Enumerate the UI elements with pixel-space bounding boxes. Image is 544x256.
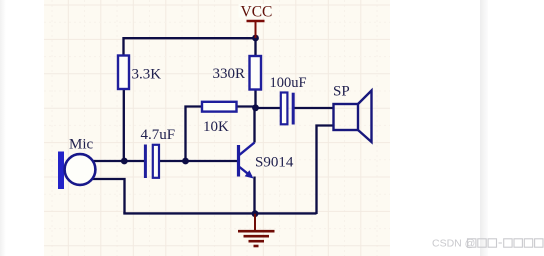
C2 positive plate xyxy=(281,93,288,125)
svg-text:10K: 10K xyxy=(203,119,229,135)
wire: mic top lead to C1 xyxy=(92,160,145,162)
Q1 emitter stroke xyxy=(240,167,252,177)
node: VCC junction xyxy=(252,35,259,42)
resistor R1 body xyxy=(118,56,129,90)
wire: R2 top lead xyxy=(254,37,256,56)
wire: R2 bottom lead to node B xyxy=(254,89,256,108)
svg-text:3.3K: 3.3K xyxy=(132,67,162,83)
Q1 collector stroke xyxy=(240,143,255,155)
wire: speaker return xyxy=(317,126,334,215)
MIC diaphragm bar xyxy=(58,152,64,190)
wire: R1 top lead xyxy=(122,37,124,56)
wire: R3 left lead down to node C xyxy=(186,107,202,162)
watermark CSDN xyxy=(432,238,543,250)
resistor R2 body xyxy=(250,56,262,90)
capacitor C2 xyxy=(281,93,293,125)
wire: Q1 collector vertical xyxy=(253,108,255,143)
schematic sheet xyxy=(44,0,390,256)
svg-text:330R: 330R xyxy=(213,66,246,82)
node B: collector junction xyxy=(252,104,259,111)
C2 negative plate xyxy=(292,93,295,125)
svg-text:4.7uF: 4.7uF xyxy=(141,127,176,143)
ground xyxy=(238,214,275,246)
VCC stem xyxy=(255,21,257,38)
wire: R3 right lead xyxy=(237,105,256,107)
svg-text:S9014: S9014 xyxy=(255,155,294,171)
C1 positive plate xyxy=(153,145,159,178)
ground bar 3 xyxy=(249,240,265,243)
transistor Q1 xyxy=(239,143,255,179)
wire: Q1 emitter vertical xyxy=(253,177,255,214)
svg-text:SP: SP xyxy=(333,84,350,100)
svg-text:100uF: 100uF xyxy=(270,75,307,91)
node A: bias/mic junction xyxy=(121,158,128,165)
wire: bottom rail xyxy=(123,212,316,214)
wire: mic bottom lead xyxy=(92,179,125,213)
C1 negative plate xyxy=(144,145,147,179)
node C: base junction xyxy=(182,158,189,165)
svg-text:VCC: VCC xyxy=(241,4,273,21)
speaker SP xyxy=(334,91,372,143)
wire: top rail from R1 to VCC node xyxy=(124,37,256,39)
label VCC xyxy=(239,4,272,18)
wire: C2 to speaker xyxy=(294,107,333,109)
Q1 base bar xyxy=(237,145,240,177)
svg-text:Mic: Mic xyxy=(69,137,94,153)
MIC body circle xyxy=(65,154,96,185)
microphone MIC xyxy=(58,152,95,190)
SP body box xyxy=(334,104,359,130)
wire: R1 bottom lead down to node A xyxy=(123,89,125,163)
power VCC symbol xyxy=(247,21,265,38)
VCC bar xyxy=(247,20,265,23)
ground bar 4 xyxy=(254,245,259,248)
node: ground junction xyxy=(252,210,259,217)
capacitor C1 xyxy=(145,145,159,179)
resistor R3 body xyxy=(202,102,237,112)
ground bar 2 xyxy=(244,235,270,238)
SP cone xyxy=(358,91,372,143)
Q1 emitter arrow xyxy=(245,170,254,178)
wire: C1 to Q1 base xyxy=(160,160,238,162)
ground stem xyxy=(254,214,256,230)
ground bar 1 xyxy=(238,230,275,233)
wire: node B to C2 xyxy=(255,107,281,109)
